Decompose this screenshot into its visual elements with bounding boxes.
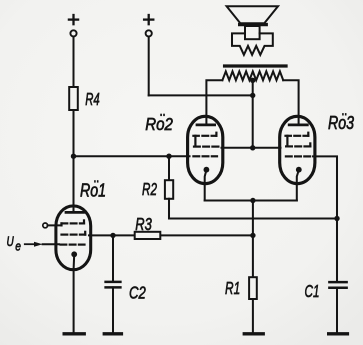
wire: R1 to ground xyxy=(252,299,254,334)
label C2 xyxy=(129,284,146,303)
wire: left + terminal down to R4 xyxy=(72,37,74,88)
Rö1 anode xyxy=(66,211,84,214)
svg-text:Ro2: Ro2 xyxy=(145,114,173,135)
tube Rö2 envelope xyxy=(188,116,223,183)
wire: C1 to ground xyxy=(336,288,338,334)
junction node (R2 top) xyxy=(166,154,171,159)
Rö3 grid row 2 xyxy=(286,143,310,146)
Rö3 anode xyxy=(289,124,307,127)
wire: input to Rö1 grid xyxy=(43,243,59,245)
wire: Rö1 screen grid to R3 and R1 top xyxy=(89,234,253,236)
terminal circle (left +) xyxy=(70,30,76,36)
supply terminal + (left) xyxy=(69,15,78,24)
svg-text:R1: R1 xyxy=(225,279,240,299)
junction node (R3 to R1 column) xyxy=(250,233,255,238)
loudspeaker base bar xyxy=(240,23,267,26)
label R3 xyxy=(135,215,152,235)
wire: grid 2 terminal to tube xyxy=(48,224,62,226)
resistor R2 xyxy=(165,180,173,199)
terminal circle (right +) xyxy=(146,30,152,36)
tube Rö1 envelope xyxy=(56,206,91,270)
transformer primary winding xyxy=(222,71,283,80)
svg-text:Ro1: Ro1 xyxy=(80,181,106,201)
label Rö2 xyxy=(145,114,173,135)
resistor R1 xyxy=(249,277,257,299)
Rö2 grid row 1 xyxy=(193,133,216,147)
transformer core xyxy=(225,64,286,67)
capacitor C2 xyxy=(106,282,121,288)
resistor R4 xyxy=(69,87,78,110)
Rö1 grid row 3 xyxy=(61,244,85,246)
label Rö3 xyxy=(328,113,354,134)
Rö1 cathode xyxy=(71,251,77,257)
Rö3 grid row 1 xyxy=(286,133,309,147)
ground (C2) xyxy=(104,332,121,335)
wire: centre tap vertical down to screen line xyxy=(252,80,254,148)
junction node (C2 tap) xyxy=(110,233,115,238)
wire: R4 down to Rö1 anode xyxy=(72,110,74,213)
wire: cathode bus down to R1 xyxy=(252,201,254,278)
wire: primary left lead to Rö2 anode xyxy=(206,80,222,125)
wire: Rö3 grid 3 to C1 column xyxy=(313,156,337,282)
wire: anode bus Rö1 to Rö2 grid xyxy=(74,155,190,157)
tube Rö3 envelope xyxy=(280,116,315,183)
svg-text:R2: R2 xyxy=(142,180,157,200)
wire: cathode bus Rö2-Rö3 xyxy=(205,199,297,201)
wire: screen line between Rö2 and Rö3 xyxy=(222,147,281,149)
svg-text:C1: C1 xyxy=(305,282,320,302)
wire: R2 bottom lead xyxy=(169,199,337,219)
junction node (screen line) xyxy=(250,145,255,150)
label C1 xyxy=(305,282,320,302)
svg-text:C2: C2 xyxy=(129,284,146,303)
junction node (transformer centre tap) xyxy=(250,78,255,83)
resistor R3 xyxy=(135,232,161,239)
loudspeaker voice-coil yoke and winding xyxy=(232,33,273,54)
ground (R1) xyxy=(244,332,263,335)
Rö2 cathode xyxy=(204,167,210,173)
capacitor C1 xyxy=(329,282,346,288)
Rö2 anode xyxy=(197,124,215,127)
loudspeaker magnet xyxy=(245,26,260,39)
label R2 xyxy=(142,180,157,200)
ground (C1) xyxy=(329,332,348,335)
loudspeaker cone xyxy=(227,6,278,23)
svg-text:Ro3: Ro3 xyxy=(328,114,354,134)
junction node (+ feed) xyxy=(250,93,255,98)
svg-text:R4: R4 xyxy=(85,90,99,110)
svg-text:e: e xyxy=(15,239,21,253)
Rö1 grid row 2 xyxy=(62,232,86,235)
label Rö1 xyxy=(80,180,106,201)
Rö3 cathode xyxy=(296,167,302,173)
supply terminal + (right) xyxy=(144,15,153,24)
svg-text:R3: R3 xyxy=(135,215,152,235)
junction node (R4 / Rö1 anode / bus) xyxy=(71,154,76,159)
wire: right + terminal down xyxy=(148,37,150,96)
label R4 xyxy=(85,90,99,110)
Rö1 grid row 1 xyxy=(62,220,85,225)
wire: R2 top lead xyxy=(168,156,170,180)
junction node (cathode bus) xyxy=(250,198,255,203)
input arrow Ue xyxy=(25,243,34,245)
Rö3 grid row 3 xyxy=(286,155,310,157)
wire: C2 top lead xyxy=(112,235,114,281)
svg-text:U: U xyxy=(7,233,15,249)
label R1 xyxy=(225,279,240,299)
Rö2 grid row 3 xyxy=(193,155,217,157)
junction node (R2 line / C1 column) xyxy=(334,216,339,221)
terminal circle (Rö1 grid 2) xyxy=(43,223,48,228)
wire: C2 to ground xyxy=(112,287,114,333)
wire: primary right lead to Rö3 anode xyxy=(283,80,298,125)
wire: + feed to transformer centre tap xyxy=(149,94,253,96)
Rö2 grid row 2 xyxy=(194,146,218,148)
ground (Rö1 cathode) xyxy=(64,332,84,335)
label Ue xyxy=(7,233,15,249)
